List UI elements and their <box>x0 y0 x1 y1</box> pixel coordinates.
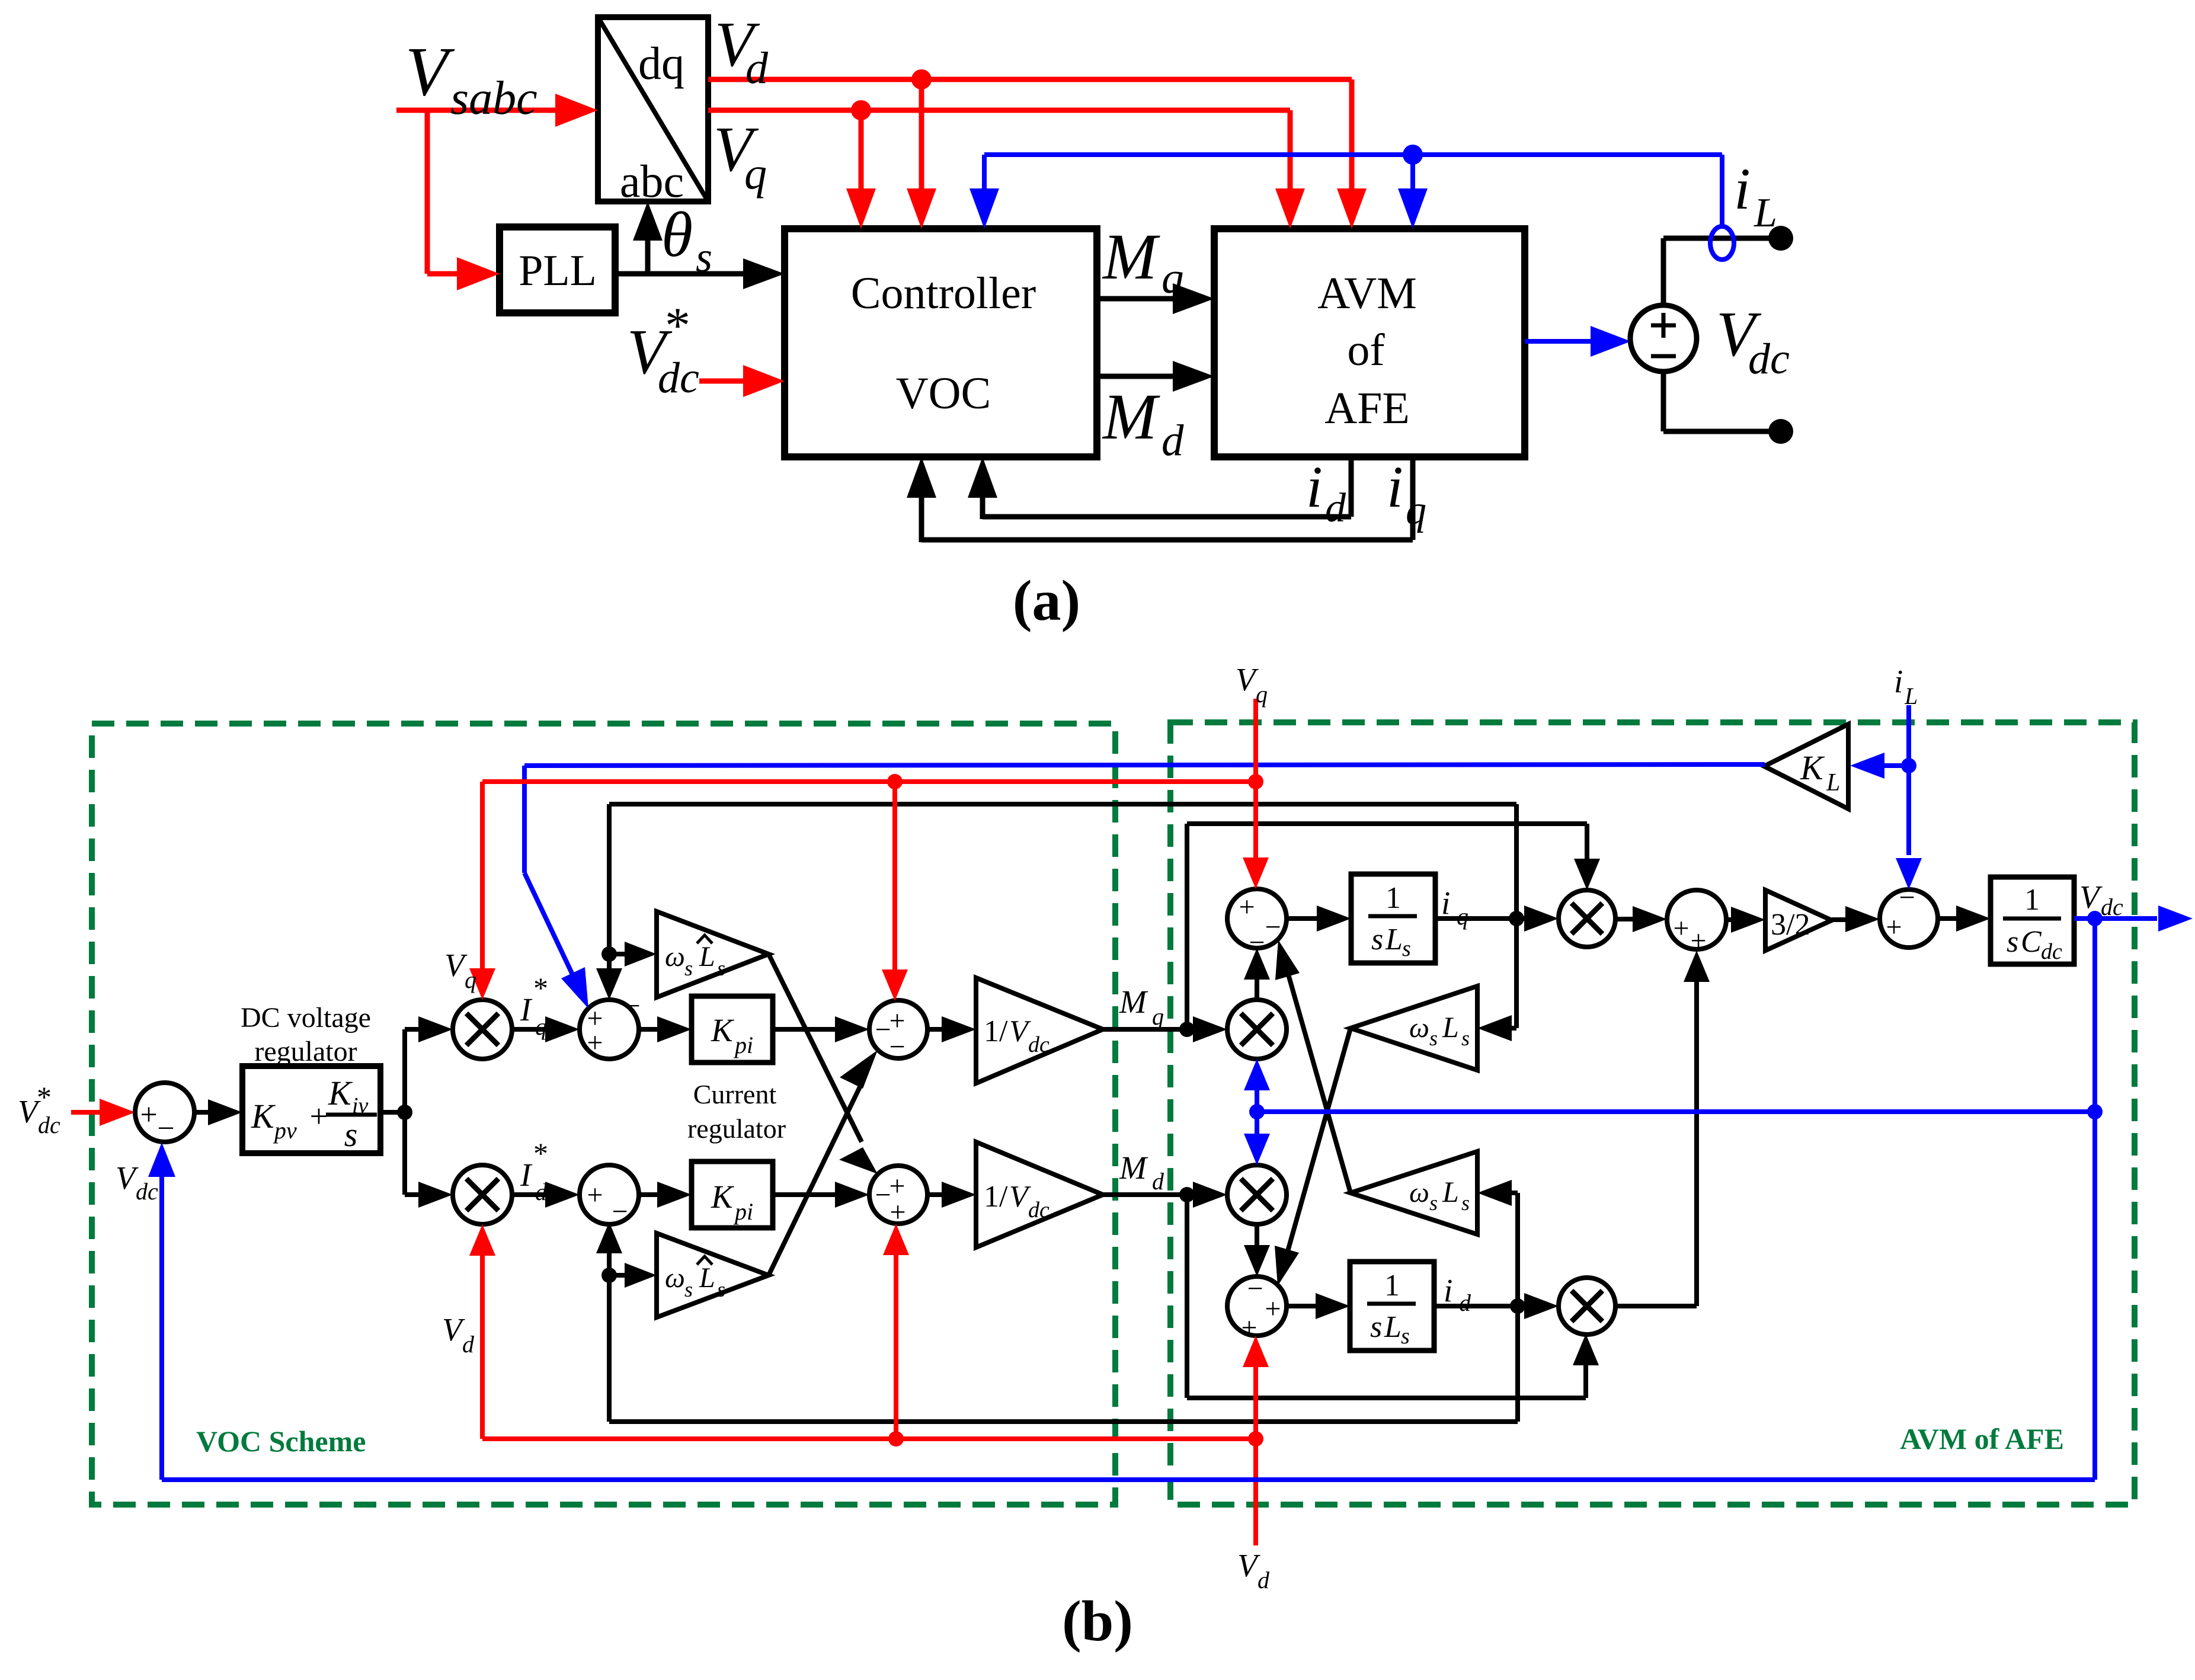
svg-text:s: s <box>717 1278 725 1301</box>
svg-text:*: * <box>533 971 548 1004</box>
wire Vdc blue output (b) <box>2074 905 2193 932</box>
svg-text:s: s <box>684 1278 693 1301</box>
svg-text:dc: dc <box>1028 1198 1049 1223</box>
svg-text:ω: ω <box>1409 1012 1429 1044</box>
svg-text:ω: ω <box>665 941 685 972</box>
multiplier A (x) <box>453 1000 512 1059</box>
svg-text:L: L <box>1384 1310 1402 1344</box>
svg-text:θ: θ <box>661 200 693 270</box>
label Vd b bottom <box>1237 1547 1270 1593</box>
label Current regulator <box>687 1079 786 1144</box>
svg-text:dc: dc <box>658 354 699 402</box>
wire final sum to 1/sCdc <box>1938 905 1991 932</box>
svg-text:−: − <box>1249 927 1265 958</box>
svg-text:−: − <box>1265 911 1281 943</box>
svg-text:1: 1 <box>1384 1269 1400 1303</box>
svg-text:−: − <box>157 1112 174 1145</box>
label iq b <box>1441 885 1468 930</box>
block PLL <box>500 227 615 313</box>
wire sumA to Kpi1 <box>639 1016 692 1042</box>
wire iL into KL (blue) <box>1850 753 1909 779</box>
label (a) <box>1013 569 1080 633</box>
label DC voltage regulator <box>241 1002 371 1067</box>
svg-text:dc: dc <box>136 1178 158 1205</box>
wire diagonal wLhat2 apex to sum3 <box>769 1050 878 1275</box>
svg-text:AFE: AFE <box>1324 383 1410 433</box>
svg-text:s: s <box>344 1115 358 1154</box>
label (b) <box>1062 1589 1133 1653</box>
wire Vdc blue feedback (b) <box>162 919 2103 1480</box>
wire Vd (red) <box>708 69 1367 229</box>
summing junction S1 <box>135 1083 194 1145</box>
svg-text:d: d <box>745 43 769 93</box>
block 1/sCdc <box>1991 877 2074 964</box>
svg-text:M: M <box>1102 380 1160 453</box>
svg-text:1/: 1/ <box>984 1015 1008 1048</box>
multiplier B (x) <box>453 1165 512 1224</box>
svg-text:s: s <box>1461 1026 1470 1050</box>
gain triangle ws Lhat s upper <box>657 911 769 997</box>
svg-text:ω: ω <box>1409 1177 1429 1208</box>
label id b <box>1444 1272 1471 1316</box>
svg-text:d: d <box>1459 1289 1471 1316</box>
svg-text:L: L <box>1904 683 1918 709</box>
svg-text:dc: dc <box>1748 335 1790 383</box>
svg-text:dc: dc <box>2101 894 2123 920</box>
wire mulMq up into qsum <box>1244 948 1270 1000</box>
svg-text:1: 1 <box>1386 881 1401 915</box>
svg-text:q: q <box>1406 488 1426 533</box>
label Vq <box>713 114 767 199</box>
svg-text:−: − <box>875 1179 891 1211</box>
svg-text:pv: pv <box>273 1117 297 1144</box>
block Kpi1 <box>692 996 773 1063</box>
wire S1 to regulator <box>194 1099 242 1125</box>
current sensor iL (blue ellipse) <box>1710 226 1734 260</box>
svg-text:C: C <box>2021 925 2042 959</box>
label iL (a) <box>1734 156 1777 236</box>
wire AVM output to source (blue) <box>1525 326 1631 357</box>
svg-text:regulator: regulator <box>254 1036 357 1067</box>
wire id feedback (black) <box>968 457 1351 519</box>
svg-text:dc: dc <box>2041 939 2062 964</box>
gain triangle wsLs lower (left pointing) <box>1351 1151 1477 1234</box>
svg-text:+: + <box>140 1098 157 1132</box>
svg-text:VOC: VOC <box>896 369 991 418</box>
dashed box AVM of AFE <box>1170 722 2135 1505</box>
svg-text:s: s <box>1429 1026 1438 1050</box>
block DC voltage regulator Kpv+Kiv/s <box>242 1066 380 1154</box>
svg-text:AVM: AVM <box>1317 268 1417 318</box>
svg-text:L: L <box>1442 1010 1459 1044</box>
label Vd <box>715 9 769 93</box>
wire Mq line to multiplier Mq <box>1103 1016 1227 1042</box>
wire Md (black) <box>1097 361 1214 392</box>
wire Vsabc input (red) <box>396 94 598 127</box>
svg-text:M: M <box>1102 220 1160 293</box>
block Kpi2 <box>692 1161 773 1228</box>
gain triangle KL (left pointing) <box>1764 724 1848 809</box>
label Vdc below S1 <box>116 1160 158 1205</box>
svg-text:q: q <box>744 149 767 199</box>
wire iq branch down to wLs1 <box>1477 919 1516 1041</box>
wire Vq (red) <box>708 100 1305 229</box>
wire sumB to Kpi2 <box>639 1182 692 1208</box>
gain triangle 1/Vdc lower <box>976 1142 1103 1247</box>
svg-text:(a): (a) <box>1013 569 1080 633</box>
wire iq feedback into sumA and wLhat1 <box>596 804 1516 1000</box>
label Vsabc <box>405 33 537 124</box>
svg-text:s: s <box>1429 1191 1438 1215</box>
svg-text:L: L <box>699 941 715 972</box>
svg-text:K: K <box>711 1012 735 1048</box>
wire diagonal wsLs1 apex to dsum <box>1275 1028 1351 1286</box>
svg-text:M: M <box>1119 1150 1148 1186</box>
svg-text:L: L <box>1754 190 1777 236</box>
svg-text:1/: 1/ <box>984 1180 1008 1214</box>
svg-text:d: d <box>535 1179 548 1205</box>
label id (a) <box>1306 454 1346 531</box>
wire Vdc* input (red) <box>699 365 785 397</box>
svg-text:Current: Current <box>693 1079 777 1109</box>
label Vdc output b <box>2079 879 2123 920</box>
block 1/sLs lower <box>1350 1262 1434 1351</box>
svg-text:DC voltage: DC voltage <box>241 1002 371 1033</box>
svg-text:pi: pi <box>733 1032 753 1058</box>
summing junction d (AVM) <box>1227 1273 1287 1343</box>
wire pxq to psum <box>1615 906 1667 932</box>
svg-text:+: + <box>889 1196 905 1228</box>
svg-text:d: d <box>1162 416 1184 465</box>
summing junction A <box>580 990 641 1059</box>
svg-text:q: q <box>1256 681 1268 708</box>
svg-text:+: + <box>587 1179 603 1211</box>
label AVM of AFE (green) <box>1900 1422 2064 1455</box>
wire Vsabc branch to PLL (red) <box>427 110 500 290</box>
svg-text:i: i <box>1306 454 1323 520</box>
svg-text:−: − <box>1247 1273 1263 1304</box>
svg-text:*: * <box>665 297 690 354</box>
svg-text:pi: pi <box>733 1198 753 1225</box>
wire source bottom terminal (black) <box>1663 372 1793 444</box>
dashed box VOC Scheme <box>92 724 1115 1505</box>
svg-text:V: V <box>405 33 455 110</box>
wire Mq (black) <box>1097 283 1214 314</box>
svg-text:q: q <box>1162 254 1184 303</box>
svg-text:d: d <box>1152 1168 1164 1195</box>
multiplier Md (x) <box>1227 1165 1287 1224</box>
svg-text:s: s <box>1370 1310 1382 1344</box>
gain triangle 3/2 <box>1765 890 1832 951</box>
label iq (a) <box>1387 454 1426 533</box>
svg-text:q: q <box>1152 1003 1164 1030</box>
svg-text:+: + <box>1886 911 1902 943</box>
svg-text:i: i <box>1387 454 1403 520</box>
svg-text:dq: dq <box>638 37 684 89</box>
wire qsum to sLs1 <box>1287 905 1351 932</box>
wire KL output left (blue) <box>524 764 1765 1009</box>
svg-text:L: L <box>699 1262 715 1294</box>
gain triangle 1/Vdc upper <box>976 978 1103 1083</box>
svg-text:L: L <box>1826 769 1840 796</box>
label Md <box>1102 380 1184 465</box>
svg-text:s: s <box>1401 1324 1410 1349</box>
label Mq b <box>1119 984 1164 1030</box>
svg-text:M: M <box>1119 984 1148 1020</box>
svg-text:s: s <box>1402 936 1411 961</box>
svg-text:s: s <box>1371 923 1383 956</box>
wire iL sense (blue) <box>969 145 1722 229</box>
wire Vq red network (b) <box>469 699 1269 1001</box>
label Vdc* <box>627 297 699 402</box>
svg-text:i: i <box>1734 156 1751 222</box>
svg-text:I: I <box>520 1157 533 1193</box>
svg-text:VOC Scheme: VOC Scheme <box>196 1425 366 1458</box>
svg-text:s: s <box>696 233 712 281</box>
svg-text:PLL: PLL <box>519 247 597 295</box>
svg-text:1: 1 <box>2024 883 2040 917</box>
block Controller VOC <box>785 229 1097 457</box>
label Vdc* b <box>18 1080 60 1138</box>
svg-text:L: L <box>1442 1175 1459 1208</box>
wire iL blue vertical <box>1896 705 1922 889</box>
label theta_s <box>661 200 712 281</box>
summing junction B <box>580 1165 639 1227</box>
wire id feedback into sumB and wLhat2 <box>596 1222 1518 1422</box>
label VOC Scheme <box>196 1425 366 1458</box>
wire mulA to sumA + label Iq* <box>512 971 580 1042</box>
block AVM of AFE <box>1214 229 1525 457</box>
wire Md line to multiplier Md <box>1103 1182 1227 1208</box>
power multiplier q (x) <box>1559 890 1615 947</box>
svg-text:*: * <box>533 1137 548 1170</box>
block 1/sLs upper <box>1351 874 1435 963</box>
wire iq output to power multiplier <box>1435 905 1559 932</box>
label Md b <box>1119 1150 1164 1195</box>
svg-text:K: K <box>251 1097 276 1135</box>
wire theta_s PLL output (black) <box>615 201 785 289</box>
svg-text:3/2: 3/2 <box>1771 908 1810 942</box>
svg-text:+: + <box>309 1098 328 1134</box>
svg-text:dc: dc <box>38 1112 60 1138</box>
label iL b <box>1894 663 1918 709</box>
wire iq feedback (black) <box>907 457 1413 542</box>
multiplier Mq (x) <box>1227 1000 1287 1059</box>
svg-text:regulator: regulator <box>687 1113 786 1144</box>
svg-text:Controller: Controller <box>851 268 1036 318</box>
svg-text:q: q <box>1457 903 1468 930</box>
svg-text:+: + <box>1690 925 1706 956</box>
svg-text:+: + <box>1239 891 1255 923</box>
svg-text:of: of <box>1347 325 1385 375</box>
wire pxd to psum bottom <box>1615 951 1710 1306</box>
wire id branch up to wLs2 <box>1477 1180 1518 1306</box>
svg-text:d: d <box>1325 485 1346 531</box>
svg-text:K: K <box>1800 748 1825 787</box>
wire node to multiplier B <box>405 1112 453 1208</box>
wire mulB to sumB + label Id* <box>512 1137 580 1208</box>
svg-text:i: i <box>1441 885 1450 921</box>
svg-text:s: s <box>684 956 693 980</box>
wire id output to power multiplier d <box>1434 1293 1559 1319</box>
wire dsum to sLs2 <box>1287 1293 1350 1319</box>
wire Vdc* input b (red) <box>71 1099 135 1126</box>
svg-text:i: i <box>1894 663 1903 699</box>
svg-text:+: + <box>1265 1293 1281 1324</box>
svg-text:sabc: sabc <box>450 72 537 124</box>
wire sum3 to 1/Vdc <box>927 1016 976 1042</box>
wire source top terminal (black) <box>1663 226 1793 305</box>
svg-text:d: d <box>462 1331 475 1358</box>
wire Vdc blue feedback up into S1 <box>148 1143 175 1480</box>
summing junction power <box>1667 890 1726 956</box>
summing junction 3 <box>869 1000 927 1063</box>
svg-text:V: V <box>2079 879 2103 915</box>
power multiplier d (x) <box>1559 1278 1615 1335</box>
gain triangle wsLs upper (left pointing) <box>1351 986 1477 1070</box>
voltage source Vdc <box>1630 305 1697 372</box>
svg-text:−: − <box>1899 882 1915 913</box>
svg-text:−: − <box>889 1031 905 1063</box>
wire diagonal wLhat1 apex to sum4 <box>769 954 878 1174</box>
label Mq <box>1102 220 1184 303</box>
svg-text:+: + <box>1673 913 1689 944</box>
svg-text:dc: dc <box>1028 1032 1049 1057</box>
wire 3/2 to final sum <box>1832 906 1880 932</box>
label Vd b at mulB <box>442 1311 475 1358</box>
block dq/abc transform <box>598 17 708 207</box>
wire mulMd down into dsum <box>1244 1224 1270 1276</box>
svg-text:s: s <box>1461 1191 1470 1215</box>
wire Vd red network (b) <box>469 1224 1269 1545</box>
summing junction 4 <box>869 1166 927 1228</box>
svg-text:s: s <box>2007 925 2018 959</box>
wire Mq riser to power multiplier q <box>1187 824 1600 1029</box>
wire node to multiplier A <box>405 1016 453 1112</box>
svg-text:+: + <box>587 1027 603 1058</box>
svg-text:−: − <box>612 1196 628 1227</box>
svg-text:abc: abc <box>620 155 684 207</box>
wire regulator output node <box>380 1105 412 1120</box>
label Vdc (source) <box>1716 299 1790 383</box>
gain triangle ws Lhat s lower <box>657 1233 769 1317</box>
svg-text:(b): (b) <box>1062 1589 1133 1653</box>
svg-text:ω: ω <box>665 1262 685 1294</box>
svg-text:AVM of AFE: AVM of AFE <box>1900 1422 2064 1455</box>
svg-text:I: I <box>520 991 533 1028</box>
svg-text:−: − <box>624 990 640 1022</box>
wire Kpi1 to sum3 <box>773 1016 869 1042</box>
wire Md riser to power multiplier d <box>1187 1195 1599 1398</box>
summing junction final <box>1880 882 1938 948</box>
svg-text:d: d <box>1258 1567 1270 1593</box>
svg-text:q: q <box>465 967 476 993</box>
svg-text:q: q <box>535 1013 547 1040</box>
svg-text:L: L <box>1385 923 1403 956</box>
svg-text:K: K <box>328 1074 353 1112</box>
wire Kpi2 to sum4 <box>773 1182 869 1208</box>
svg-text:i: i <box>1444 1272 1452 1308</box>
svg-text:s: s <box>717 956 725 980</box>
label Vq b at mulA <box>444 947 476 993</box>
wire sum4 to 1/Vdc lower <box>927 1182 976 1208</box>
svg-text:K: K <box>711 1179 735 1215</box>
wire diagonal wsLs2 apex to qsum <box>1275 940 1351 1193</box>
label Vq b top <box>1236 661 1268 708</box>
wire psum to 3/2 <box>1726 907 1765 933</box>
svg-text:*: * <box>37 1080 52 1113</box>
summing junction q (AVM) <box>1227 889 1287 958</box>
